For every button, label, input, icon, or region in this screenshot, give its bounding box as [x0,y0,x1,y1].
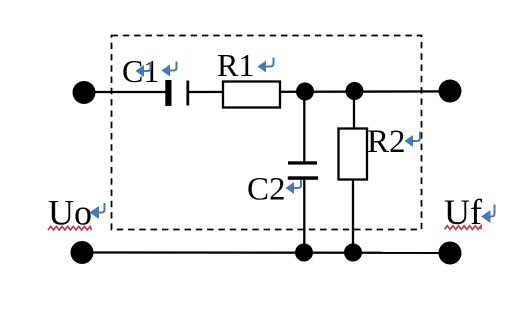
annotation return-arrow after C2 [286,180,302,195]
wire node B down to R2 [353,91,355,129]
terminal bottom-right (Uf) [439,242,462,265]
capacitor C1 right plate [186,81,189,106]
wire R2 down to bottom rail [352,180,354,253]
svg-text:R2: R2 [367,124,406,160]
junction node B (top, R2 branch) [346,82,364,100]
resistor R1 [223,82,280,108]
spellcheck squiggle under Uf [445,226,482,230]
junction node A (top, C2 branch) [296,83,314,101]
annotation return-arrow after Uf [481,205,495,224]
junction node D (bottom, R2 branch) [344,244,362,262]
capacitor C1 left plate [165,80,171,106]
junction node C (bottom, C2 branch) [295,244,313,262]
capacitor C2 bottom plate [288,176,318,180]
capacitor C2 top plate [288,161,317,164]
wire node A down to C2 [303,91,305,162]
svg-text:C2: C2 [247,172,286,208]
terminal top-left [73,81,96,104]
annotation return-arrow after R1 [258,58,274,73]
annotation return-arrow over C1 [136,62,151,77]
terminal bottom-left (Uo) [71,241,94,264]
annotation return-arrow after C1 [162,62,177,77]
spellcheck squiggle under Uo [48,226,92,230]
resistor R2 [339,129,368,180]
annotation return-arrow after R2 [405,132,421,148]
svg-text:R1: R1 [217,47,254,83]
terminal top-right [439,80,462,103]
wire top-left (input to C1) [84,91,166,93]
bottom rail wire [82,251,450,254]
wire C2 down to bottom rail [303,180,305,253]
dashed network boundary box [112,36,422,230]
wire C1 to R1 and R1 to output terminal [189,90,450,93]
annotation return-arrow after Uo [90,203,105,219]
